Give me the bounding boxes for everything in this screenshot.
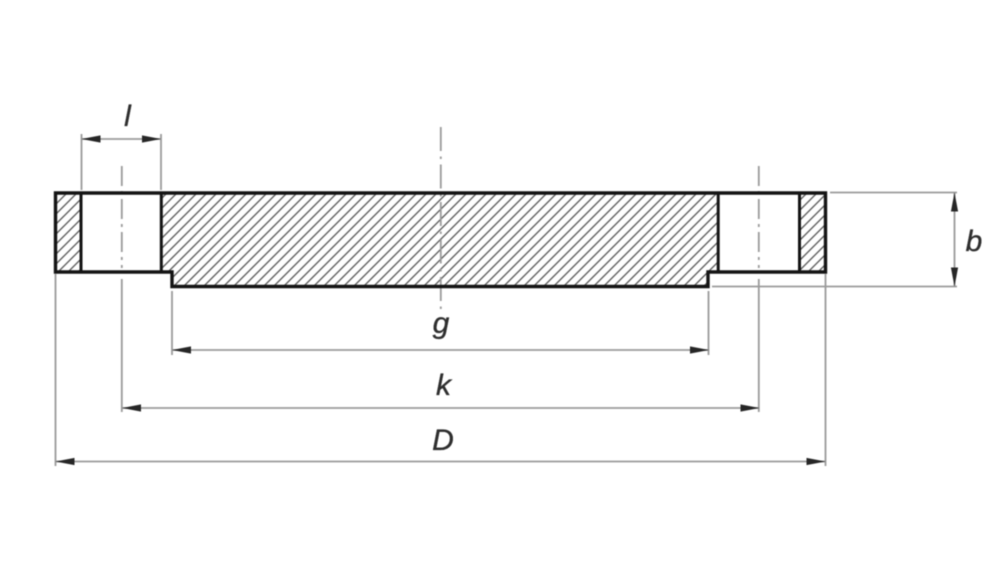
svg-text:g: g [433, 307, 450, 340]
svg-text:b: b [966, 225, 983, 258]
svg-text:D: D [432, 424, 454, 457]
svg-text:k: k [436, 369, 453, 402]
